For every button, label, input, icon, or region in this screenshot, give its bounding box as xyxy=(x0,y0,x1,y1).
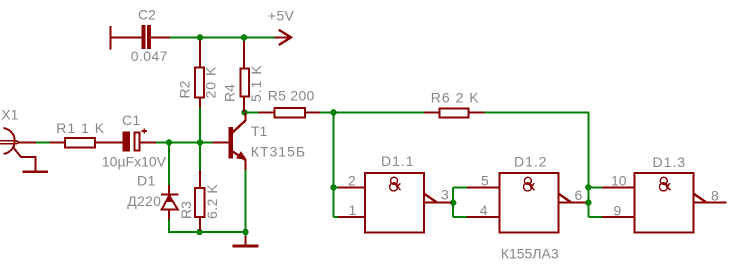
svg-text:R2: R2 xyxy=(176,80,192,98)
svg-text:20 K: 20 K xyxy=(203,66,219,99)
svg-text:8: 8 xyxy=(711,188,719,204)
svg-text:КТ315Б: КТ315Б xyxy=(251,144,306,160)
svg-text:6: 6 xyxy=(575,187,583,203)
svg-text:R4: R4 xyxy=(222,84,238,102)
svg-text:5: 5 xyxy=(481,172,489,188)
svg-text:C1: C1 xyxy=(122,112,141,128)
svg-text:D1.2: D1.2 xyxy=(514,153,548,169)
svg-text:5.1 K: 5.1 K xyxy=(248,64,264,102)
svg-text:0.047: 0.047 xyxy=(131,48,168,64)
svg-text:2: 2 xyxy=(348,172,356,188)
svg-text:R1 1 K: R1 1 K xyxy=(56,120,105,136)
svg-text:R5 200: R5 200 xyxy=(268,88,315,104)
svg-text:6.2 K: 6.2 K xyxy=(204,184,220,219)
svg-text:3: 3 xyxy=(441,187,449,203)
svg-text:10µFx10V: 10µFx10V xyxy=(102,154,167,170)
svg-text:T1: T1 xyxy=(251,123,268,139)
svg-text:4: 4 xyxy=(480,202,488,218)
svg-text:R6 2 K: R6 2 K xyxy=(431,89,480,105)
svg-text:Д220: Д220 xyxy=(127,193,161,209)
svg-text:D1.1: D1.1 xyxy=(381,153,415,169)
svg-text:+5V: +5V xyxy=(268,8,295,24)
svg-text:C2: C2 xyxy=(138,7,156,23)
svg-text:D1.3: D1.3 xyxy=(653,154,687,170)
svg-text:9: 9 xyxy=(614,203,622,219)
svg-text:X1: X1 xyxy=(1,107,18,123)
svg-text:10: 10 xyxy=(611,172,627,188)
svg-text:К155ЛА3: К155ЛА3 xyxy=(501,245,559,261)
svg-text:1: 1 xyxy=(349,202,357,218)
svg-text:D1: D1 xyxy=(137,173,156,189)
svg-text:R3: R3 xyxy=(178,201,194,219)
